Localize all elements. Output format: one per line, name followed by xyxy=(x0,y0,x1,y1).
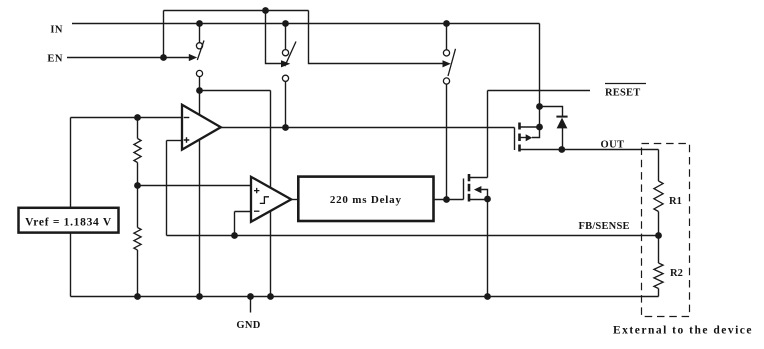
node U1 output at S2 xyxy=(282,124,289,131)
node FB at R1 R2 xyxy=(655,232,662,239)
node rail at U1 xyxy=(196,293,203,300)
transistor Q1 PMOS pass element xyxy=(520,123,533,152)
op-amp U2 xyxy=(251,177,291,222)
wire PMOS body arrow return xyxy=(532,127,540,138)
wire RESET line xyxy=(488,90,591,92)
svg-text:External to the device: External to the device xyxy=(613,325,753,337)
transistor Q2 NMOS reset pull-down xyxy=(469,174,481,202)
resistor R1 external xyxy=(654,181,663,212)
node IN at S2 xyxy=(282,20,289,27)
op-amp U1 xyxy=(182,105,221,150)
node divider top xyxy=(134,114,141,121)
switch S2 xyxy=(281,42,296,82)
node FB at U2 input xyxy=(231,232,238,239)
wire NMOS source to ground rail xyxy=(487,199,489,297)
wire U1 + input drop to FB line xyxy=(166,141,168,236)
wire resistor chain middle xyxy=(137,163,139,228)
delay block 220 ms xyxy=(298,177,433,221)
wire switch S2 top xyxy=(285,24,287,50)
svg-text:FB/SENSE: FB/SENSE xyxy=(579,221,630,232)
resistor R4 internal divider lower xyxy=(134,228,141,251)
resistor R2 external xyxy=(654,263,663,289)
svg-text:IN: IN xyxy=(50,24,63,35)
wire R2 bottom to ground rail xyxy=(658,289,660,297)
wire RESET drop to NMOS drain xyxy=(487,91,489,178)
wire EN line xyxy=(67,57,189,59)
wire OUT corner down to R1 xyxy=(658,150,660,182)
wire IN corner down to PMOS source xyxy=(539,24,541,128)
svg-text:R2: R2 xyxy=(670,268,683,279)
wire U1 inverting input from Vref xyxy=(71,117,183,119)
wire R1 to FB junction xyxy=(658,212,660,264)
wire switch S1 bottom to node xyxy=(199,77,201,91)
wire FB/SENSE line xyxy=(167,235,659,237)
wire switch S2 bottom to U1 output xyxy=(285,81,287,127)
wire U2 - input drop to FB line xyxy=(234,212,236,236)
svg-text:OUT: OUT xyxy=(601,140,625,151)
wire top rail right drop to switch S3 control xyxy=(309,11,443,64)
node delay output xyxy=(443,196,450,203)
wire Vref top riser xyxy=(70,118,72,208)
wire PMOS body stub xyxy=(520,137,527,139)
wire diode anode to OUT xyxy=(562,128,564,150)
wire switch S3 top xyxy=(446,24,448,50)
wire switch S3 bottom to delay node xyxy=(446,84,448,200)
diode D1 body diode xyxy=(556,117,567,129)
wire NMOS body arrow return xyxy=(481,190,487,200)
svg-text:220 ms Delay: 220 ms Delay xyxy=(330,194,402,206)
wire switch S1 top xyxy=(199,24,201,43)
node rail at NMOS xyxy=(484,293,491,300)
wire U2 inverting input xyxy=(235,211,252,213)
node top rail junction xyxy=(262,7,269,14)
wire delay output to NMOS gate xyxy=(434,199,464,201)
wire supply jog to op-amp U2 xyxy=(200,90,271,92)
node rail at divider xyxy=(134,293,141,300)
node PMOS source xyxy=(536,124,543,131)
wire divider tap to U2 + input xyxy=(138,185,252,187)
wire PMOS gate bar xyxy=(514,128,516,151)
svg-text:EN: EN xyxy=(47,54,63,65)
wire NMOS gate bar xyxy=(463,179,465,200)
switch S1 (EN) xyxy=(189,41,204,77)
node EN junction xyxy=(160,54,167,61)
wire NMOS source stub xyxy=(469,199,488,201)
wire EN riser to top rail xyxy=(163,11,165,58)
node IN at S1 xyxy=(196,20,203,27)
wire diode branch top xyxy=(540,107,563,117)
svg-text:Vref = 1.1834 V: Vref = 1.1834 V xyxy=(25,216,112,228)
wire top rail xyxy=(164,10,309,12)
dashed box external network xyxy=(642,144,690,317)
node S1 output xyxy=(196,87,203,94)
wire IN line xyxy=(72,23,540,25)
wire op-amp U2 supply drop xyxy=(270,91,272,297)
node rail at U2 xyxy=(267,293,274,300)
wire NMOS drain stub xyxy=(469,177,488,179)
svg-text:GND: GND xyxy=(236,320,260,331)
wire U2 output to delay xyxy=(291,199,298,201)
wire U1 non-inverting input xyxy=(167,140,183,142)
svg-text:R1: R1 xyxy=(669,196,682,207)
wire OUT line from PMOS drain xyxy=(520,149,659,151)
wire resistor chain top xyxy=(137,118,139,139)
node divider tap xyxy=(134,182,141,189)
wire GND stub xyxy=(250,297,252,313)
switch S3 xyxy=(443,49,456,84)
wire op-amp U1 supply drop xyxy=(199,91,201,297)
wire U1 output to PMOS gate xyxy=(221,127,515,129)
wire PMOS source stub xyxy=(520,126,540,128)
resistor R3 internal divider upper xyxy=(134,139,141,163)
label RESET with overline xyxy=(605,84,646,99)
wire ground rail xyxy=(71,296,659,298)
Vref box xyxy=(19,208,119,233)
node OUT at diode xyxy=(558,146,565,153)
wire Vref bottom to ground rail xyxy=(70,233,72,297)
node NMOS source xyxy=(484,196,491,203)
node diode tap xyxy=(536,103,543,110)
node IN at S3 xyxy=(443,20,450,27)
node rail at GND xyxy=(247,293,254,300)
wire switch S2 control from top rail xyxy=(266,11,282,64)
svg-text:RESET: RESET xyxy=(605,88,640,99)
wire resistor chain bottom xyxy=(137,250,139,297)
